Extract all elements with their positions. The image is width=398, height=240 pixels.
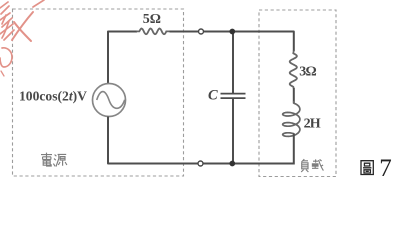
label dian-yuan (power source, drawn glyphs) [41, 153, 67, 167]
glyph dian [41, 153, 52, 166]
wire: top horizontal right of resistor, corner down to 3-ohm [170, 32, 294, 52]
junction dot top [229, 29, 235, 35]
AC source circle [93, 84, 126, 117]
resistor 3-ohm (vertical smooth wave) [290, 51, 297, 89]
svg-text:3Ω: 3Ω [299, 64, 316, 79]
wire: left branch top (corner at 108,31.5 to resistor) [108, 32, 137, 85]
inductor 2H coil [283, 101, 300, 136]
svg-text:C: C [208, 88, 218, 104]
svg-text:5Ω: 5Ω [143, 12, 161, 27]
resistor 5-ohm (smooth wave) [137, 29, 170, 35]
wire: source bottom lead + bottom horizontal wire [108, 117, 294, 164]
load enclosure (dashed box) [259, 10, 336, 177]
wire: capacitor branch bottom lead [232, 98, 234, 163]
glyph zai [312, 159, 323, 170]
svg-text:2H: 2H [304, 116, 321, 131]
red handwriting marks [0, 0, 44, 76]
terminal open circle top [199, 29, 204, 34]
power-source enclosure (dashed box) [13, 9, 184, 176]
caption tu (figure, drawn glyph) [361, 161, 373, 175]
wire: inductor bottom lead [293, 134, 295, 165]
svg-text:100cos(2t)V: 100cos(2t)V [19, 89, 87, 105]
wire: capacitor branch top lead [232, 32, 234, 94]
svg-text:7: 7 [379, 155, 392, 182]
junction dot bottom [229, 161, 235, 167]
AC source sine wave [97, 92, 125, 109]
terminal open circle bottom [198, 161, 203, 166]
glyph yuan [53, 154, 67, 166]
capacitor plates [221, 93, 246, 95]
glyph fu [301, 159, 308, 172]
wire: between 3-ohm and inductor [293, 88, 295, 104]
label fu-zai (load, drawn glyphs) [301, 159, 323, 172]
